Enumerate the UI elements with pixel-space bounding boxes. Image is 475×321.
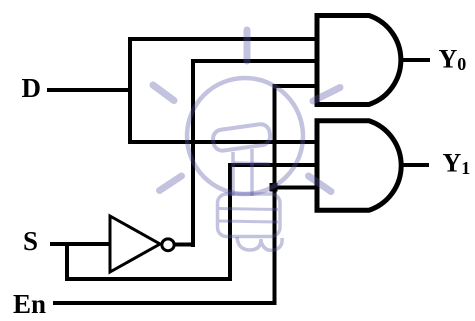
wire D lead	[47, 88, 132, 92]
wire S branch horizontal	[65, 277, 232, 281]
and-gate U2 (Y1)	[317, 121, 401, 211]
watermark flag	[212, 123, 271, 152]
watermark pole left	[231, 152, 235, 196]
svg-text:S: S	[23, 226, 38, 256]
watermark base outline	[218, 194, 281, 237]
wire D riser	[128, 37, 132, 144]
watermark bottom curl	[237, 237, 282, 250]
inverter U3 triangle	[110, 216, 160, 272]
watermark pole right	[250, 149, 254, 196]
junction En node	[270, 183, 278, 192]
wire D top branch to AND1	[128, 37, 318, 41]
wire Sbar riser	[191, 59, 195, 247]
wire En riser	[273, 84, 277, 305]
watermark ray top	[244, 30, 251, 61]
wire Sbar to AND1	[191, 59, 318, 63]
svg-text:Y1: Y1	[443, 149, 471, 179]
watermark base thread line 1	[219, 209, 278, 210]
wire inverter output stub	[174, 243, 195, 247]
watermark ray lower-right	[309, 176, 332, 192]
svg-text:D: D	[22, 73, 42, 103]
svg-text:Y0: Y0	[439, 45, 467, 75]
svg-text:En: En	[13, 289, 46, 319]
wire En to AND2 input	[273, 186, 319, 190]
wire S riser to AND2	[228, 163, 232, 281]
watermark base thread line 2	[219, 221, 278, 222]
watermark crossbar	[234, 163, 270, 164]
and-gate U1 (Y0)	[317, 16, 401, 105]
watermark lightbulb logo	[153, 30, 340, 250]
watermark ray lower-left	[160, 176, 182, 191]
wire S branch drop	[65, 242, 69, 281]
watermark ray upper-left	[153, 85, 174, 101]
wire S to AND2 input	[228, 163, 318, 167]
wire D bottom branch to AND2	[128, 140, 318, 144]
wire En lead	[53, 301, 277, 305]
inverter U3 bubble	[162, 239, 174, 251]
wire S lead	[50, 242, 110, 246]
wire En to AND1 input	[273, 84, 319, 88]
watermark bulb glass circle	[187, 78, 303, 194]
wire Y0 output	[399, 58, 430, 62]
wire Y1 output	[399, 163, 429, 167]
watermark ray upper-right	[313, 88, 340, 102]
